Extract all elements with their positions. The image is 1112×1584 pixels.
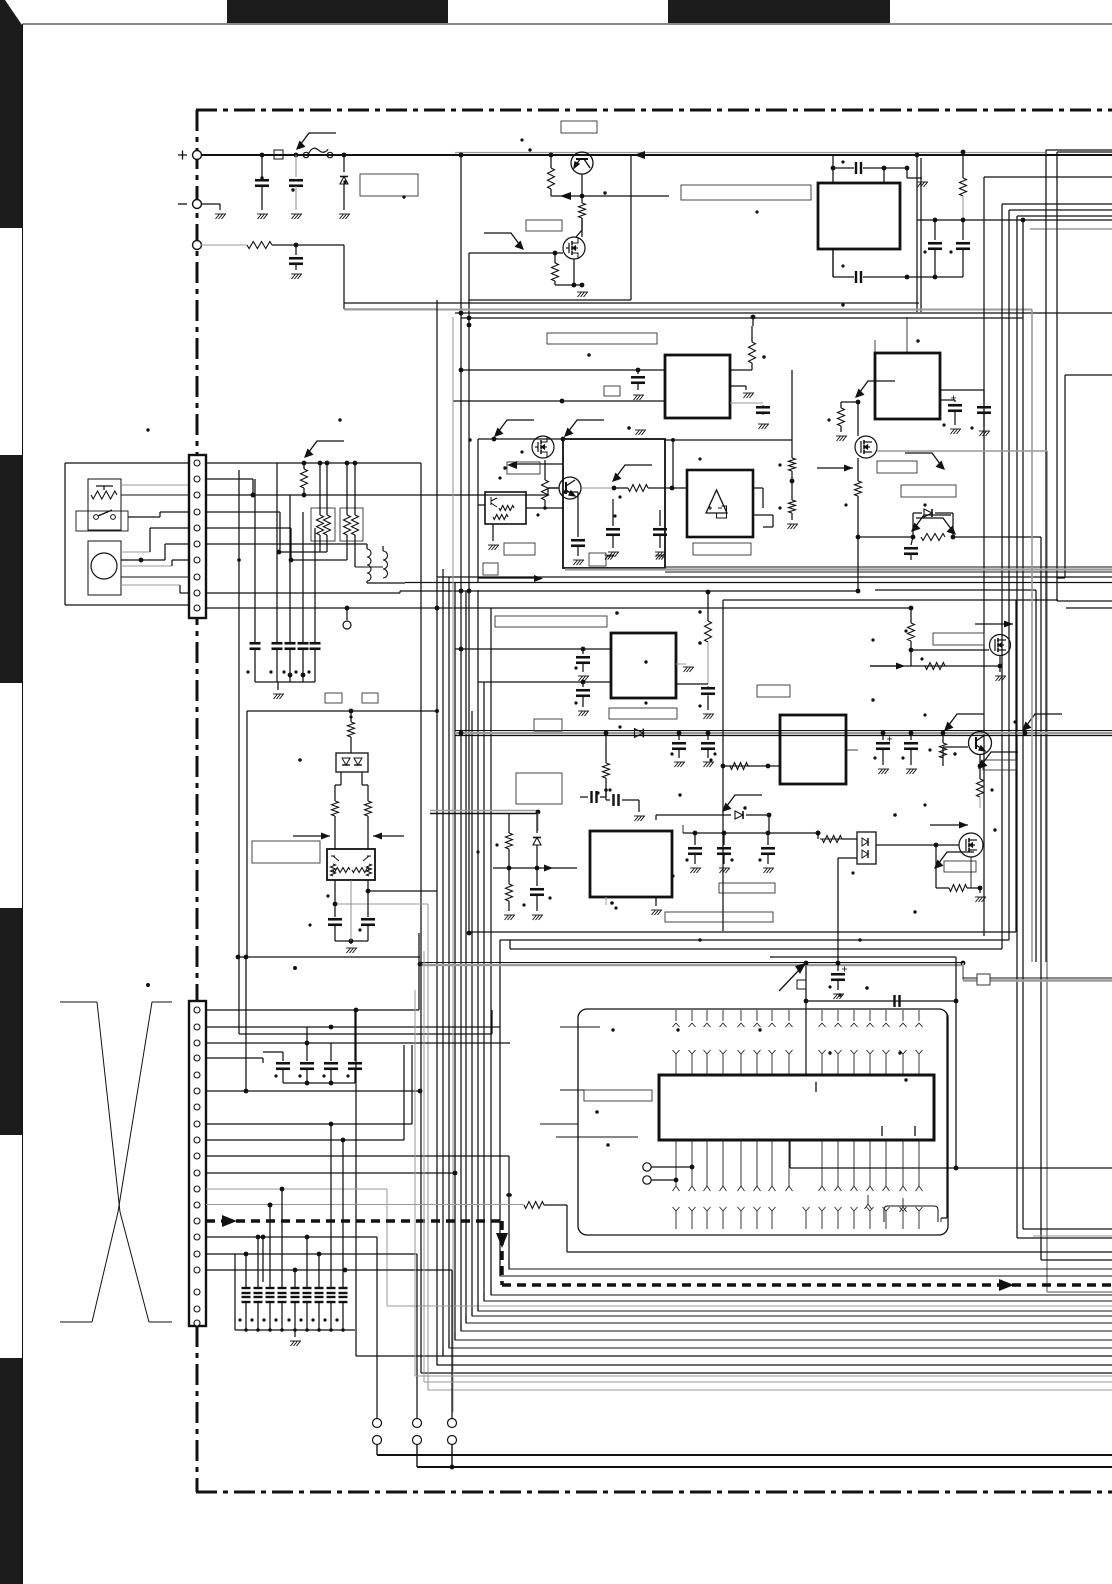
sub-box A bottom rails — [344, 302, 919, 304]
mosfet M3 — [990, 635, 1011, 656]
dots subbox C — [520, 450, 523, 453]
wire Q2 base — [548, 487, 559, 489]
dot near Q1 — [520, 138, 523, 141]
label box D1 — [360, 174, 418, 196]
wire B lower — [453, 400, 665, 402]
junction lamp wire — [139, 558, 144, 563]
resistors R9 R10 — [346, 463, 348, 515]
connector CN2 body — [189, 1001, 206, 1326]
capacitor C26 — [600, 796, 606, 798]
sub-box C2 (Q2 box) — [563, 439, 665, 568]
capacitor C20 — [983, 402, 985, 404]
bus wire y949 — [510, 948, 1002, 950]
bus vertical x509 — [508, 1156, 510, 1269]
ground osc — [917, 182, 928, 187]
block box outline — [832, 155, 834, 183]
wire CN1-4 — [206, 511, 280, 513]
bus vertical x466 — [465, 591, 467, 1323]
capacitor C37 — [300, 1063, 314, 1069]
registration block left 4 — [0, 1358, 22, 1584]
junction Q5 — [856, 400, 861, 405]
small box b — [362, 693, 378, 703]
resistor R1 — [247, 242, 272, 249]
arrow M2a 2 — [564, 420, 604, 437]
rail junctions — [459, 731, 464, 736]
terminal - symbol — [178, 203, 187, 205]
resistor R4 — [554, 253, 556, 263]
capacitor C28 — [910, 734, 912, 740]
bus vertical x1023 — [1022, 220, 1024, 1229]
regulator box U3 — [485, 492, 526, 524]
label box F2 — [665, 912, 773, 922]
bus vertical x491 — [490, 608, 492, 1295]
wire CN1-5 — [206, 527, 291, 529]
diode D3 — [635, 729, 644, 738]
wire CN2-15 — [206, 1236, 377, 1238]
mosfet M2a — [532, 436, 554, 458]
arrow Q3a — [944, 714, 984, 731]
resistors R7 R8 — [319, 463, 321, 515]
wire CN2-3 — [206, 1042, 510, 1044]
header bar 2 — [668, 0, 890, 23]
wire U3 — [478, 504, 485, 506]
arrow M4 line — [930, 824, 968, 826]
right box corner 2 — [1066, 607, 1112, 609]
resistor R18 — [857, 458, 859, 481]
dots Q3 — [923, 713, 926, 716]
wire U8 bottom — [605, 897, 607, 905]
ground input — [215, 214, 226, 219]
switch box — [76, 511, 128, 531]
bus wire y940 — [500, 939, 1009, 941]
wire Q3 base — [942, 747, 944, 758]
resistor R25 — [977, 779, 984, 797]
terminal B1 — [373, 1419, 382, 1428]
wire CN2-1 — [206, 1009, 419, 1011]
resistor R24 — [942, 734, 944, 743]
capacitor C11 — [298, 643, 309, 649]
bottom pin row 2 — [673, 1207, 680, 1211]
wire coil out — [382, 546, 384, 551]
junction gate — [553, 251, 558, 256]
capacitor C9 — [272, 643, 283, 649]
schematic border bottom (dash-dot) — [196, 1491, 1112, 1494]
wire IC1 right gnd — [730, 385, 746, 387]
capacitor C27 electrolytic — [882, 734, 884, 740]
gray rail step — [962, 963, 964, 980]
capacitor C10 — [285, 643, 296, 649]
wire main +B rail — [201, 154, 1112, 156]
bus vertical x1048 gray — [1046, 451, 1048, 1292]
arrow rail — [779, 963, 806, 991]
capacitor C3 — [295, 245, 297, 255]
small box C2 — [589, 553, 606, 566]
wire CN2-8 — [206, 1123, 412, 1125]
right box corner 1 — [1057, 600, 1112, 602]
wire M3 gate — [911, 649, 989, 651]
IC U8 — [590, 831, 672, 897]
arrow Q3 em — [978, 752, 1018, 769]
capacitor C4 — [856, 162, 861, 174]
IC U2 — [665, 355, 730, 418]
main rail y733 — [455, 730, 1112, 732]
ground C15 — [633, 395, 644, 400]
bundle corners fan — [509, 1261, 1112, 1269]
wire cap bus — [335, 940, 368, 942]
mosfet M1 — [563, 237, 585, 259]
capacitor C35 — [895, 995, 900, 1007]
wire CN2-4 — [206, 1057, 263, 1059]
junctions CN1-1 — [302, 461, 307, 466]
arrow on base line — [560, 192, 571, 200]
ground M4 — [979, 888, 981, 893]
wire y1169 — [790, 1167, 1112, 1169]
bus wire y585 — [405, 582, 1112, 584]
wire - to ground — [201, 203, 220, 205]
gray stub y229 — [1030, 228, 1112, 230]
capacitor C16 — [563, 491, 578, 493]
wire M1 source — [573, 259, 575, 285]
bus vertical x1009 — [1008, 210, 1010, 940]
resistor pair box 2 — [340, 508, 363, 541]
bus vertical x478 — [477, 590, 479, 1311]
big box outline — [578, 1009, 948, 1235]
fold mark bottom segs — [60, 1321, 92, 1323]
sub-box opto — [247, 710, 437, 712]
label box Q1 — [561, 121, 597, 133]
arrow M2a 1 — [494, 420, 534, 437]
label box D2 — [757, 685, 790, 697]
dot label — [755, 210, 758, 213]
wire CN1-10 — [206, 607, 911, 609]
dashed signal path — [206, 1221, 1112, 1285]
resistor R23 — [925, 663, 945, 670]
junction opto top — [349, 709, 354, 714]
resistor R11 — [350, 711, 352, 722]
wire Q2 out — [582, 487, 615, 489]
label box M2 — [877, 461, 917, 473]
wire sub-box E bottom right — [913, 681, 1016, 683]
bus wire y590 — [875, 589, 1036, 591]
capacitor C34 electrolytic — [837, 965, 839, 971]
capacitor C17 — [612, 499, 614, 526]
terminal P.CON — [193, 241, 202, 250]
wire to ground osc — [883, 168, 885, 183]
left resistor chain — [791, 370, 793, 458]
fan extra y1238 — [1017, 1237, 1112, 1239]
label box M3 — [933, 633, 984, 645]
capacitor C32 — [723, 833, 725, 845]
wire U6 right — [676, 683, 708, 685]
wire res box out — [319, 535, 321, 552]
resistor R21 — [605, 734, 607, 763]
wire IC2 left — [455, 648, 611, 650]
capacitor C2 — [295, 155, 297, 177]
dots F — [495, 843, 498, 846]
arrow y868 — [544, 865, 553, 872]
wire Q1 base ladder — [550, 155, 552, 168]
bus vertical x472 — [471, 711, 473, 1316]
wire PC2 out — [876, 844, 959, 846]
osc bottom wire — [832, 249, 834, 277]
terminal B3 — [448, 1419, 457, 1428]
capacitor C36 — [276, 1063, 290, 1069]
wire y537 rail — [858, 536, 913, 538]
bus vertical x246 — [245, 957, 247, 1091]
mosfet M2 — [855, 436, 877, 458]
wire y833 row — [768, 815, 770, 833]
terminal B2 — [413, 1419, 422, 1428]
dot U9 — [595, 1110, 599, 1114]
cap row top junctions — [244, 1252, 249, 1257]
label box M4 — [944, 861, 976, 872]
terminal T1 — [643, 1163, 651, 1171]
IC U5 — [875, 353, 940, 419]
label box pair — [252, 841, 320, 863]
resistor R5 — [962, 155, 964, 178]
capacitor C14 — [367, 891, 369, 917]
schematic border left (dash-dot) — [196, 110, 199, 1492]
transistor Q3 — [969, 732, 992, 755]
stray dot — [146, 983, 150, 987]
bus vertical x1057 — [1056, 152, 1058, 601]
wire pin x676 — [675, 1181, 677, 1186]
dot R18 — [844, 503, 847, 506]
dots osc — [841, 160, 844, 163]
optocoupler PC2 — [857, 832, 876, 864]
extra pins — [865, 1195, 872, 1209]
bus vertical x449 — [448, 577, 450, 1348]
opamp triangle — [706, 490, 727, 513]
sub-box E outline — [723, 599, 1058, 601]
wire y868 — [493, 867, 577, 869]
capacitor C19 — [954, 400, 956, 402]
wire B3 out — [451, 1444, 453, 1467]
sub-box C left edge — [477, 439, 479, 582]
wire U5 right — [940, 399, 955, 401]
arrow into pair L — [293, 833, 330, 840]
fuse F1 — [303, 148, 332, 157]
ground D1 — [339, 214, 350, 219]
bus vertical x443 — [442, 569, 444, 1356]
dots opto — [298, 758, 302, 762]
ground M3 — [999, 666, 1001, 672]
wire CN1-9 — [206, 592, 400, 594]
wire P.CON run — [343, 245, 345, 309]
junction box corners — [492, 437, 497, 442]
capacitor C18 — [659, 510, 661, 526]
arrow M2 右 — [905, 453, 945, 470]
junction bundle — [459, 589, 464, 594]
wire x417 — [416, 1254, 418, 1418]
wire U8 top right diode — [656, 814, 731, 816]
gray corner x1032 — [1031, 310, 1033, 963]
bus vertical x239 — [238, 470, 240, 1034]
wire CN2-12 — [206, 1188, 387, 1190]
resistor R12 — [332, 801, 339, 816]
bus vertical x469 — [468, 325, 470, 933]
wire pair gray — [335, 903, 428, 905]
wire CN1-1 rail — [206, 462, 421, 464]
junction opamp — [671, 438, 675, 442]
capacitor C7 — [962, 220, 964, 240]
fold mark diagonals — [97, 1002, 120, 1212]
ground pair — [350, 941, 352, 944]
arrow to M1 gate — [484, 233, 524, 250]
resistor R20 — [707, 592, 709, 621]
cap row wire tops — [254, 479, 256, 643]
lamp box — [88, 541, 121, 595]
fold mark top segs — [60, 1001, 97, 1003]
bus vertical x1046 — [1045, 150, 1047, 962]
bus vertical x461b — [460, 318, 462, 1331]
sub-box Q1 outline — [630, 155, 632, 300]
wire CN2-6 — [206, 1090, 420, 1092]
IC U9 bottom pins — [673, 1140, 680, 1191]
resistor R13 — [365, 801, 372, 816]
junction rails — [459, 311, 464, 316]
resistor R19 — [921, 534, 945, 541]
fan gray y1382 — [423, 951, 425, 1382]
capacitor C5 — [856, 271, 861, 283]
connector pins row1 (from box top) — [673, 1010, 680, 1027]
capacitor C29 top — [605, 790, 607, 800]
wire PC2 leg2 — [838, 857, 857, 859]
wire thermistor — [121, 484, 189, 486]
coil T1a — [367, 549, 371, 581]
resistor R14 — [751, 326, 753, 342]
capacitor C24 — [678, 734, 680, 740]
dot B — [587, 353, 591, 357]
wire CN1-6 — [206, 543, 367, 545]
box outline D4 — [516, 773, 562, 804]
wire pair down — [334, 880, 336, 917]
wire mid right — [917, 219, 1112, 221]
IC U7 — [780, 715, 846, 784]
ground above C2 — [635, 430, 646, 435]
ground cap row — [277, 682, 279, 690]
wire Q1 collector right — [593, 154, 669, 156]
capacitor C25 — [707, 734, 709, 740]
arrow to rail — [304, 441, 344, 458]
resistor R6 — [303, 463, 305, 469]
bus vertical x1017 — [1016, 216, 1018, 1238]
bus vertical x455b — [454, 583, 456, 1341]
wire CN2-13 gray long — [206, 1204, 524, 1206]
bus wire y591 — [399, 591, 401, 593]
capacitor C12 — [310, 643, 321, 649]
sub-box A left edge — [436, 300, 438, 1365]
fan extra y1229 — [1023, 1228, 1112, 1230]
registration block left 3 — [0, 908, 22, 1135]
terminal below — [346, 608, 348, 620]
wire x947 — [946, 1014, 948, 1218]
diode D2 loop — [912, 513, 914, 537]
bus wire y577 long — [437, 576, 1112, 578]
scatter part dots — [528, 148, 531, 151]
page border vertical — [22, 24, 24, 1584]
bus vertical x1041 — [1040, 537, 1042, 1260]
cap cluster bus — [282, 1069, 284, 1083]
dot F2 — [671, 874, 674, 877]
wire U5 top — [906, 317, 908, 353]
sub-box A right edge — [916, 155, 918, 312]
bus vertical x484 — [483, 602, 485, 1301]
wire CN2-16 — [206, 1253, 417, 1255]
connector CN1 pins — [194, 460, 200, 466]
capacitor C23 — [582, 682, 584, 687]
wire opamp right — [753, 487, 763, 489]
opamp box U4 — [687, 470, 753, 537]
capacitor C22 — [582, 649, 584, 654]
cap row bottom bus — [245, 1302, 247, 1330]
fan extra y1260 — [1041, 1259, 1112, 1261]
wire x956 down — [770, 956, 956, 958]
resistor pair box 1 — [311, 508, 335, 541]
wire CN1 outer loop — [65, 462, 189, 464]
capacitor C13 — [334, 916, 336, 918]
arrow M3 — [975, 621, 1013, 628]
arrow D2a — [911, 515, 951, 532]
ground M1 — [577, 292, 588, 297]
small box a — [325, 693, 342, 703]
label box top right — [681, 185, 811, 200]
capacitor row C40-C48 — [242, 1288, 251, 1293]
dot D — [615, 611, 619, 615]
junction P.CON node — [294, 243, 299, 248]
arrow to fuse — [296, 133, 336, 150]
label box B — [547, 333, 657, 344]
wire CN2-9 — [206, 1139, 404, 1141]
schematic border top (dash-dot) — [196, 109, 1112, 112]
ferrite bead FB1 — [977, 974, 990, 985]
arrow D2b — [916, 518, 956, 535]
wire opto legs — [340, 772, 342, 785]
resistor R17 — [841, 401, 858, 403]
small box D3 — [534, 719, 562, 731]
arrow U8 diode — [722, 795, 762, 812]
junction M1 source — [580, 283, 585, 288]
capacitor C8 — [250, 643, 261, 649]
connector CN1 body — [189, 455, 206, 618]
arrow Q2 — [612, 465, 652, 482]
wire B1 out — [376, 1444, 378, 1455]
cap row dots — [238, 1318, 241, 1321]
wire lamp 5 — [121, 584, 180, 586]
arrow M3b — [896, 663, 905, 670]
junction dots on +B rail — [260, 153, 265, 158]
label box U6 — [609, 708, 677, 719]
resistor R15 — [544, 460, 546, 480]
capacitor C38 — [324, 1063, 338, 1069]
zener D4 — [536, 813, 538, 833]
label box F1 — [719, 883, 775, 893]
wire Q1 emitter — [581, 174, 583, 203]
bus vertical x500 — [499, 940, 501, 1276]
resistor R29 — [949, 885, 967, 892]
wire lamp 3 — [121, 565, 172, 567]
coil T1b — [383, 551, 388, 578]
mosfet M4 — [959, 833, 983, 857]
arrow inner left — [516, 463, 563, 465]
label box diode — [901, 485, 956, 497]
wire switch — [128, 516, 160, 518]
transistor Q1 — [571, 152, 593, 174]
resistor R30 on y1205 — [524, 1202, 544, 1209]
IC U9 pin ticks — [815, 1082, 817, 1092]
dot R14 — [762, 355, 766, 359]
ground C3 — [291, 274, 302, 279]
